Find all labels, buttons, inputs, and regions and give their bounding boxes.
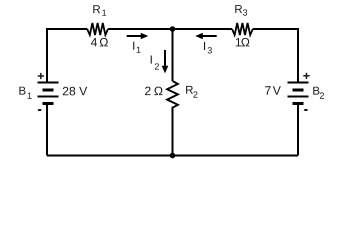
wire: left vertical lower (B1 - plate to bottom corner): [46, 104, 48, 156]
label 7 V (B2 value): [265, 86, 281, 94]
wire: top middle (R1 to node, node to R3): [108, 28, 232, 30]
node: bottom junction dot: [170, 153, 176, 159]
label 4 Ohm (R1 value): [91, 38, 108, 47]
resistor R2 (2 ohm) zigzag: [167, 81, 178, 108]
battery B1 plus sign: [38, 73, 44, 79]
wire: left vertical upper (B1 + plate to top corner): [46, 28, 48, 83]
label 2 Ohm (R2 value): [145, 87, 162, 96]
battery B1 minus sign: [38, 109, 41, 111]
battery B2 plus sign: [303, 73, 309, 79]
label B2: [313, 87, 324, 99]
arrow I2 (current direction, downward): [162, 50, 169, 73]
label 28 V (B1 value): [63, 87, 87, 96]
battery B1 (28 V) plates: [38, 83, 59, 104]
battery B2 (7 V) plates: [288, 83, 309, 104]
label I2 (current): [151, 55, 159, 69]
wire: bottom rail: [47, 155, 298, 157]
label R3: [235, 5, 247, 16]
label B1: [19, 87, 31, 99]
label I3 (current): [204, 42, 212, 54]
node: top junction dot: [170, 26, 176, 32]
wire: top left (battery B1 top to R1): [47, 28, 87, 30]
wire: middle vertical upper (top node to R2): [172, 29, 174, 81]
resistor R1 (4 ohm) zigzag: [87, 23, 108, 35]
arrow I3 (current direction, leftward): [195, 33, 217, 40]
label R2: [186, 86, 197, 98]
resistor R3 (1 ohm) zigzag: [232, 23, 253, 35]
battery B2 minus sign: [304, 109, 307, 111]
label I1 (current): [133, 42, 140, 53]
wire: top right (R3 to corner): [253, 28, 298, 30]
arrow I1 (current direction, rightward): [127, 33, 149, 40]
wire: right vertical lower (B2 - plate to bottom corner): [297, 104, 299, 156]
wire: right vertical upper (corner to B2 + plate): [297, 28, 299, 83]
label 1 Ohm (R3 value): [236, 38, 250, 47]
wire: middle vertical lower (R2 to bottom node): [172, 107, 174, 156]
label R1: [93, 5, 106, 16]
